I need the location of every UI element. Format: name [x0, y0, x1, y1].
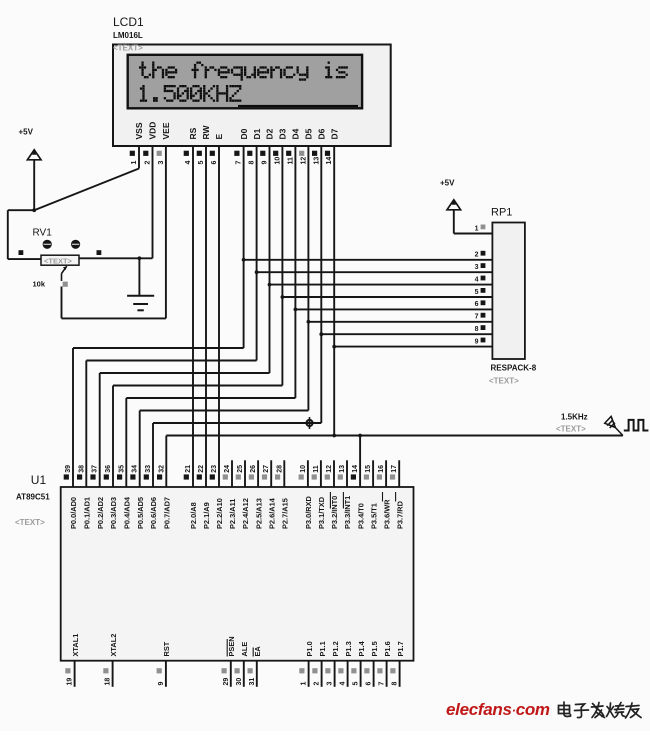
svg-text:P3.7/RD: P3.7/RD: [395, 500, 404, 529]
svg-text:P3.6/WR: P3.6/WR: [382, 499, 391, 529]
svg-text:P3.0/RXD: P3.0/RXD: [304, 495, 313, 529]
svg-text:15: 15: [365, 465, 372, 473]
svg-text:<TEXT>: <TEXT>: [44, 256, 73, 265]
svg-text:19: 19: [67, 678, 74, 686]
svg-text:28: 28: [276, 465, 283, 473]
svg-text:37: 37: [92, 465, 99, 473]
svg-text:8: 8: [249, 161, 256, 165]
svg-text:1: 1: [475, 225, 479, 232]
svg-text:D4: D4: [291, 128, 301, 139]
svg-text:2: 2: [145, 161, 152, 165]
wire: P0.1 vertical: [85, 361, 87, 488]
svg-text:5: 5: [475, 289, 479, 296]
svg-text:P0.0/AD0: P0.0/AD0: [69, 497, 78, 529]
svg-text:13: 13: [339, 465, 346, 473]
svg-text:VSS: VSS: [134, 122, 144, 139]
svg-text:P0.1/AD1: P0.1/AD1: [83, 497, 92, 529]
svg-text:P0.5/AD5: P0.5/AD5: [136, 497, 145, 529]
junction T0 drop: [358, 434, 362, 438]
ground symbol: [127, 295, 154, 297]
LCD pin end squares and numbers: [130, 151, 135, 156]
svg-text:LCD1: LCD1: [113, 15, 144, 29]
wire: LCD VSS pin1 down: [138, 146, 140, 169]
wire: D3 staircase to P0.3: [113, 385, 282, 387]
svg-text:XTAL1: XTAL1: [71, 634, 80, 657]
svg-text:6: 6: [211, 161, 218, 165]
svg-text:16: 16: [378, 465, 385, 473]
svg-text:P0.7/AD7: P0.7/AD7: [163, 497, 172, 529]
wire: ground stem: [138, 258, 140, 295]
svg-text:P0.2/AD2: P0.2/AD2: [96, 497, 105, 529]
svg-text:18: 18: [105, 678, 112, 686]
svg-text:33: 33: [145, 465, 152, 473]
wire: LCD D1 vertical: [256, 146, 258, 361]
svg-text:3: 3: [158, 161, 165, 165]
wire: P0.7 vertical: [165, 436, 167, 488]
svg-text:P1.0: P1.0: [305, 641, 314, 656]
svg-text:P2.7/A15: P2.7/A15: [281, 498, 290, 529]
wire: RS to P2.0: [192, 146, 194, 487]
wire: D0 staircase to P0.0: [73, 347, 244, 349]
svg-text:D1: D1: [252, 128, 262, 139]
svg-text:7: 7: [236, 161, 243, 165]
svg-text:P1.2: P1.2: [331, 641, 340, 656]
svg-text:+5V: +5V: [19, 128, 34, 137]
wire: D3 to RP1 pin5: [282, 296, 492, 298]
svg-text:P2.1/A9: P2.1/A9: [202, 502, 211, 529]
svg-text:3: 3: [475, 264, 479, 271]
svg-text:14: 14: [352, 465, 359, 473]
generator probe symbol: [605, 416, 623, 435]
wire: to RV1 left terminal: [8, 258, 41, 260]
junction marker (circle-cross) on D6 run: [304, 417, 316, 429]
wire: D2 to RP1 pin4: [270, 284, 493, 286]
wire: D1 staircase to P0.1: [86, 360, 256, 362]
svg-text:P0.4/AD4: P0.4/AD4: [123, 496, 132, 529]
junction D7/RP1: [332, 345, 336, 349]
svg-text:D0: D0: [239, 128, 249, 139]
svg-text:7: 7: [379, 682, 386, 686]
svg-text:9: 9: [158, 682, 165, 686]
svg-text:12: 12: [300, 157, 307, 165]
LCD display LCD1: [113, 45, 391, 147]
svg-text:4: 4: [475, 276, 479, 283]
wire: P0.5 vertical: [139, 411, 141, 488]
svg-text:P2.5/A13: P2.5/A13: [254, 498, 263, 529]
svg-text:2: 2: [475, 252, 479, 259]
svg-text:D2: D2: [265, 128, 275, 139]
svg-text:D3: D3: [278, 128, 288, 139]
RV1 terminal squares: [19, 250, 24, 255]
svg-text:6: 6: [475, 301, 479, 308]
svg-text:30: 30: [236, 678, 243, 686]
svg-text:32: 32: [158, 465, 165, 473]
svg-text:RP1: RP1: [491, 207, 512, 219]
svg-text:LM016L: LM016L: [113, 31, 143, 40]
wire: D6 to RP1 pin8: [321, 333, 492, 335]
junction ground tap: [138, 256, 142, 260]
junction D6/RP1: [319, 332, 323, 336]
svg-text:34: 34: [132, 465, 139, 473]
svg-text:9: 9: [475, 338, 479, 345]
svg-text:P0.3/AD3: P0.3/AD3: [109, 497, 118, 529]
svg-text:31: 31: [249, 678, 256, 686]
svg-text:P2.3/A11: P2.3/A11: [228, 499, 237, 529]
junction D3/RP1: [281, 295, 285, 299]
wire: +5V down: [33, 160, 35, 210]
wire: D1 to RP1 pin3: [257, 271, 493, 273]
RV1 wiper arrow: [61, 274, 63, 282]
svg-text:P2.4/A12: P2.4/A12: [241, 498, 250, 529]
svg-text:24: 24: [224, 465, 231, 473]
microcontroller U1 AT89C51: [61, 487, 414, 661]
svg-text:8: 8: [392, 682, 399, 686]
wire: D4 staircase to P0.4: [126, 397, 295, 399]
svg-text:1: 1: [301, 682, 308, 686]
svg-text:P2.0/A8: P2.0/A8: [189, 502, 198, 529]
svg-text:3: 3: [327, 682, 334, 686]
chinese brand 电子发烧友: [559, 702, 642, 718]
svg-text:21: 21: [185, 465, 192, 473]
svg-text:RS: RS: [188, 127, 198, 139]
svg-text:P2.6/A14: P2.6/A14: [267, 497, 276, 529]
svg-text:36: 36: [105, 465, 112, 473]
svg-text:17: 17: [391, 465, 398, 473]
svg-text:4: 4: [340, 682, 347, 686]
svg-text:<TEXT>: <TEXT>: [15, 518, 45, 527]
svg-text:26: 26: [250, 465, 257, 473]
wire: P0.2 vertical: [99, 373, 101, 487]
svg-text:XTAL2: XTAL2: [109, 634, 118, 657]
svg-text:10: 10: [300, 465, 307, 473]
U1 bottom pin stubs, squares, numbers: [74, 661, 76, 687]
square wave glyph: [624, 420, 649, 431]
svg-text:11: 11: [313, 465, 320, 473]
junction D4/RP1: [294, 308, 298, 312]
overlines on PSEN and EA: [226, 639, 228, 657]
svg-text:8: 8: [475, 326, 479, 333]
svg-text:P0.6/AD6: P0.6/AD6: [149, 497, 158, 529]
svg-text:P3.1/TXD: P3.1/TXD: [317, 496, 326, 529]
wire: LCD D3 vertical: [281, 146, 283, 386]
svg-text:6: 6: [366, 682, 373, 686]
wire: LCD VEE pin3 down: [165, 146, 167, 318]
svg-text:11: 11: [287, 157, 294, 165]
svg-text:1.5KHz: 1.5KHz: [561, 413, 588, 422]
svg-text:RESPACK-8: RESPACK-8: [491, 364, 537, 373]
U1 top pin squares, numbers and stubs: [64, 474, 69, 479]
svg-text:P1.6: P1.6: [383, 641, 392, 656]
svg-text:1: 1: [131, 161, 138, 165]
junction D2/RP1: [268, 283, 272, 287]
svg-text:<TEXT>: <TEXT>: [556, 425, 586, 434]
wire: RV1 right terminal to VDD column: [79, 257, 153, 259]
wire: LCD D6 vertical: [320, 146, 322, 423]
junction D7: [332, 434, 336, 438]
svg-text:25: 25: [237, 465, 244, 473]
svg-text:13: 13: [313, 157, 320, 165]
wire: +5V to RP1 pin1: [453, 210, 455, 234]
junction at +5V corner: [32, 208, 36, 212]
svg-text:P2.2/A10: P2.2/A10: [215, 498, 224, 529]
LCD screen dot-matrix text: [141, 62, 143, 64]
svg-text:RW: RW: [201, 125, 211, 140]
svg-text:14: 14: [326, 157, 333, 165]
svg-text:VDD: VDD: [148, 122, 158, 140]
wire: D7 to RP1 pin9: [334, 346, 492, 348]
wire: wiper down: [61, 287, 63, 319]
wire: VEE to wiper horizontal: [62, 317, 166, 319]
svg-text:39: 39: [65, 465, 72, 473]
wire: LCD D4 vertical: [294, 146, 296, 398]
LCD screen: [128, 55, 362, 109]
junction D0/RP1: [242, 258, 246, 262]
svg-text:P3.4/T0: P3.4/T0: [356, 503, 365, 529]
svg-text:27: 27: [263, 465, 270, 473]
svg-text:D5: D5: [304, 128, 314, 139]
svg-text:10k: 10k: [33, 280, 46, 289]
wire: D4 to RP1 pin6: [295, 308, 492, 310]
svg-text:VEE: VEE: [161, 122, 171, 139]
wire: P0.0 vertical: [72, 348, 74, 487]
wire: D6 staircase to P0.6: [153, 422, 321, 424]
svg-text:P1.1: P1.1: [318, 641, 327, 656]
svg-text:7: 7: [475, 314, 479, 321]
RP1 pin squares and numbers: [481, 225, 486, 230]
svg-text:38: 38: [78, 465, 85, 473]
svg-text:P1.7: P1.7: [396, 641, 405, 656]
wire: T0 vertical: [359, 436, 361, 488]
svg-text:RV1: RV1: [33, 228, 53, 239]
svg-text:5: 5: [198, 161, 205, 165]
wire: long horizontal D7/P0.7/T0/source: [166, 435, 623, 437]
wire: RW to P2.1: [205, 146, 207, 487]
wire: P0.3 vertical: [112, 386, 114, 488]
svg-text:5: 5: [353, 682, 360, 686]
svg-text:<TEXT>: <TEXT>: [113, 44, 143, 53]
wire: P0.4 vertical: [125, 398, 127, 487]
wire: D5 to RP1 pin7: [308, 321, 492, 323]
svg-text:P3.5/T1: P3.5/T1: [369, 503, 378, 529]
svg-text:U1: U1: [31, 473, 47, 487]
wire: LCD D5 vertical: [307, 146, 309, 411]
svg-text:EA: EA: [253, 646, 262, 657]
wire: P0.6 vertical: [152, 423, 154, 487]
svg-text:12: 12: [326, 465, 333, 473]
wire: LCD D0 vertical: [243, 146, 245, 348]
wire: E to P2.2: [218, 146, 220, 487]
svg-text:P1.3: P1.3: [344, 641, 353, 656]
svg-text:P1.4: P1.4: [357, 640, 366, 656]
LCD cursor underline: [238, 105, 358, 107]
svg-text:4: 4: [185, 161, 192, 165]
svg-text:2: 2: [314, 682, 321, 686]
wire: D0 to RP1 pin2: [244, 259, 493, 261]
junction D5/RP1: [307, 320, 311, 324]
svg-text:P1.5: P1.5: [370, 641, 379, 656]
svg-text:22: 22: [198, 465, 205, 473]
wire: corner left: [8, 209, 34, 211]
junction D1/RP1: [255, 270, 259, 274]
svg-text:elecfans·com: elecfans·com: [446, 700, 550, 719]
svg-text:ALE: ALE: [240, 642, 249, 657]
svg-text:P3.2/INT0: P3.2/INT0: [330, 496, 339, 529]
wire: left rail down: [7, 210, 9, 259]
svg-text:RST: RST: [162, 641, 171, 656]
svg-text:10: 10: [274, 157, 281, 165]
wire: D2 staircase to P0.2: [100, 372, 270, 374]
svg-text:D7: D7: [329, 128, 339, 139]
svg-text:+5V: +5V: [440, 179, 455, 188]
wire: D5 staircase to P0.5: [140, 410, 309, 412]
wire: LCD VDD pin2 down: [152, 146, 154, 258]
svg-text:PSEN: PSEN: [227, 636, 236, 656]
resistor pack RP1: [492, 223, 525, 360]
wire: LCD D7 vertical: [333, 146, 335, 436]
wire: LCD D2 vertical: [269, 146, 271, 373]
svg-text:P3.3/INT1: P3.3/INT1: [343, 496, 352, 529]
svg-text:35: 35: [118, 465, 125, 473]
overlines on P3 pin names: [329, 492, 331, 509]
svg-text:E: E: [214, 134, 224, 140]
svg-text:23: 23: [211, 465, 218, 473]
svg-text:D6: D6: [317, 128, 327, 139]
svg-text:29: 29: [223, 678, 230, 686]
svg-text:AT89C51: AT89C51: [16, 493, 50, 502]
wire: VSS diagonal to +5V rail corner: [34, 169, 139, 211]
svg-text:9: 9: [262, 161, 269, 165]
svg-text:<TEXT>: <TEXT>: [489, 377, 519, 386]
